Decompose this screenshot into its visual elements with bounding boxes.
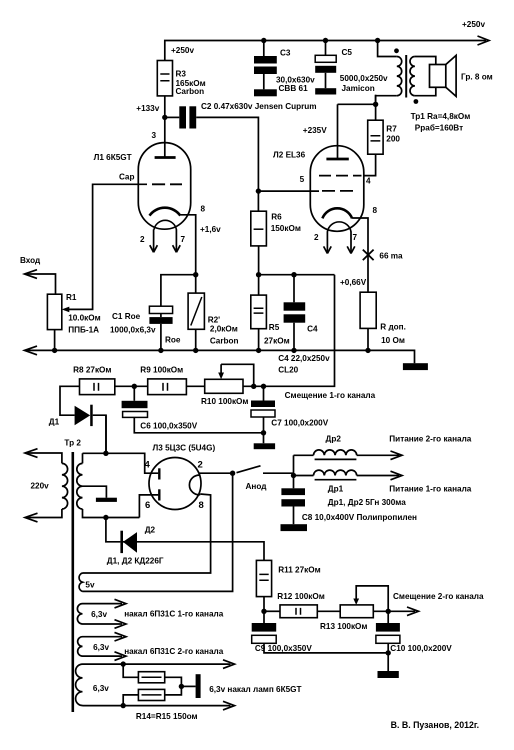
svg-text:C3: C3 xyxy=(280,49,291,58)
svg-text:R7: R7 xyxy=(386,125,397,134)
svg-text:R12 100кОм: R12 100кОм xyxy=(277,592,324,601)
svg-text:R8 27кОм: R8 27кОм xyxy=(73,366,111,375)
svg-text:2: 2 xyxy=(314,233,319,242)
svg-text:R1: R1 xyxy=(66,293,77,302)
svg-text:C5: C5 xyxy=(342,48,353,57)
svg-text:Гр. 8 ом: Гр. 8 ом xyxy=(461,73,493,82)
svg-text:2: 2 xyxy=(140,235,145,244)
svg-text:6,3v накал ламп 6К5GT: 6,3v накал ламп 6К5GT xyxy=(209,685,301,694)
svg-text:2,0кОм: 2,0кОм xyxy=(210,325,238,334)
svg-text:Др1, Др2 5Гн 300ма: Др1, Др2 5Гн 300ма xyxy=(328,498,406,507)
svg-text:Л2 EL36: Л2 EL36 xyxy=(273,151,306,160)
svg-text:R5: R5 xyxy=(269,323,280,332)
svg-text:Д1, Д2 КД226Г: Д1, Д2 КД226Г xyxy=(107,557,164,566)
svg-text:150кОм: 150кОм xyxy=(271,224,301,233)
svg-text:8: 8 xyxy=(373,206,378,215)
svg-text:7: 7 xyxy=(353,233,358,242)
svg-text:5: 5 xyxy=(300,175,305,184)
svg-text:Jamicon: Jamicon xyxy=(342,84,375,93)
svg-text:Смещение 2-го канала: Смещение 2-го канала xyxy=(393,592,484,601)
svg-text:Roe: Roe xyxy=(165,336,181,345)
svg-text:27кОм: 27кОм xyxy=(264,336,290,345)
svg-text:Carbon: Carbon xyxy=(176,87,205,96)
svg-text:2: 2 xyxy=(198,460,203,471)
svg-text:Вход: Вход xyxy=(20,256,41,265)
svg-text:8: 8 xyxy=(201,205,206,214)
svg-text:ППБ-1А: ППБ-1А xyxy=(68,326,99,335)
svg-text:R13 100кОм: R13 100кОм xyxy=(320,622,367,631)
svg-text:C1 Roe: C1 Roe xyxy=(112,312,141,321)
svg-text:C4 22,0x250v: C4 22,0x250v xyxy=(278,354,330,363)
svg-text:Др1: Др1 xyxy=(328,485,344,494)
svg-text:Анод: Анод xyxy=(246,482,268,491)
svg-text:1000,0x6,3v: 1000,0x6,3v xyxy=(110,326,156,335)
svg-text:Л1 6К5GT: Л1 6К5GT xyxy=(94,153,132,162)
svg-text:C6 100,0x350V: C6 100,0x350V xyxy=(140,422,197,431)
svg-text:Тр 2: Тр 2 xyxy=(64,439,81,448)
svg-text:200: 200 xyxy=(386,135,400,144)
svg-text:Питание 1-го канала: Питание 1-го канала xyxy=(389,485,471,494)
svg-text:C2 0.47x630v Jensen Cuprum: C2 0.47x630v Jensen Cuprum xyxy=(201,102,317,111)
svg-text:220v: 220v xyxy=(31,482,50,491)
svg-text:6,3v: 6,3v xyxy=(93,643,109,652)
svg-text:R3: R3 xyxy=(176,70,187,79)
svg-text:5000,0x250v: 5000,0x250v xyxy=(340,74,388,83)
svg-text:накал 6П31С 2-го канала: накал 6П31С 2-го канала xyxy=(124,647,224,656)
svg-text:+1,6v: +1,6v xyxy=(200,225,221,234)
svg-text:66 ma: 66 ma xyxy=(379,252,403,261)
svg-text:+0,66V: +0,66V xyxy=(340,278,367,287)
svg-text:4: 4 xyxy=(145,460,151,471)
svg-text:CBB 61: CBB 61 xyxy=(279,84,309,93)
svg-text:R10 100кОм: R10 100кОм xyxy=(201,397,248,406)
svg-text:6,3v: 6,3v xyxy=(93,684,109,693)
svg-text:В. В. Пузанов, 2012г.: В. В. Пузанов, 2012г. xyxy=(391,720,480,730)
svg-text:Д2: Д2 xyxy=(145,526,156,535)
svg-text:Рраб=160Вт: Рраб=160Вт xyxy=(415,123,463,133)
svg-text:Др2: Др2 xyxy=(326,435,342,444)
svg-text:Смещение 1-го канала: Смещение 1-го канала xyxy=(285,391,376,400)
svg-text:6,3v: 6,3v xyxy=(91,610,107,619)
svg-text:R9 100кОм: R9 100кОм xyxy=(140,366,183,375)
svg-text:накал 6П31С 1-го канала: накал 6П31С 1-го канала xyxy=(124,610,224,619)
svg-text:C8 10,0x400V Полипропилен: C8 10,0x400V Полипропилен xyxy=(302,513,417,522)
svg-text:Л3 5Ц3С (5U4G): Л3 5Ц3С (5U4G) xyxy=(153,444,216,453)
svg-text:Carbon: Carbon xyxy=(210,337,239,346)
svg-text:R6: R6 xyxy=(271,213,282,222)
svg-text:4: 4 xyxy=(366,177,371,186)
svg-text:Питание 2-го канала: Питание 2-го канала xyxy=(389,435,471,444)
svg-text:R2': R2' xyxy=(208,316,220,325)
svg-text:+235V: +235V xyxy=(303,126,327,135)
svg-text:+250v: +250v xyxy=(462,20,485,29)
svg-text:7: 7 xyxy=(181,235,186,244)
svg-text:10.0кОм: 10.0кОм xyxy=(68,314,100,323)
svg-text:C7 100,0x200V: C7 100,0x200V xyxy=(271,419,328,428)
svg-text:Д1: Д1 xyxy=(49,418,60,427)
svg-text:10 Ом: 10 Ом xyxy=(381,336,405,345)
svg-text:R доп.: R доп. xyxy=(380,323,406,332)
svg-text:R14=R15 150ом: R14=R15 150ом xyxy=(136,712,198,721)
svg-text:C4: C4 xyxy=(307,325,318,334)
svg-text:Тр1 Ra=4,8кОм: Тр1 Ra=4,8кОм xyxy=(411,112,471,121)
svg-text:+133v: +133v xyxy=(136,104,159,113)
svg-text:3: 3 xyxy=(152,131,157,140)
svg-text:C9 100,0x350V: C9 100,0x350V xyxy=(255,644,312,653)
svg-text:C10 100,0x200V: C10 100,0x200V xyxy=(390,644,452,653)
svg-text:Cap: Cap xyxy=(119,173,134,182)
svg-text:R11 27кОм: R11 27кОм xyxy=(278,566,320,575)
svg-text:CL20: CL20 xyxy=(278,366,298,375)
svg-text:8: 8 xyxy=(199,500,204,511)
svg-text:5v: 5v xyxy=(85,581,95,590)
svg-text:6: 6 xyxy=(145,500,150,511)
svg-text:+250v: +250v xyxy=(171,46,194,55)
